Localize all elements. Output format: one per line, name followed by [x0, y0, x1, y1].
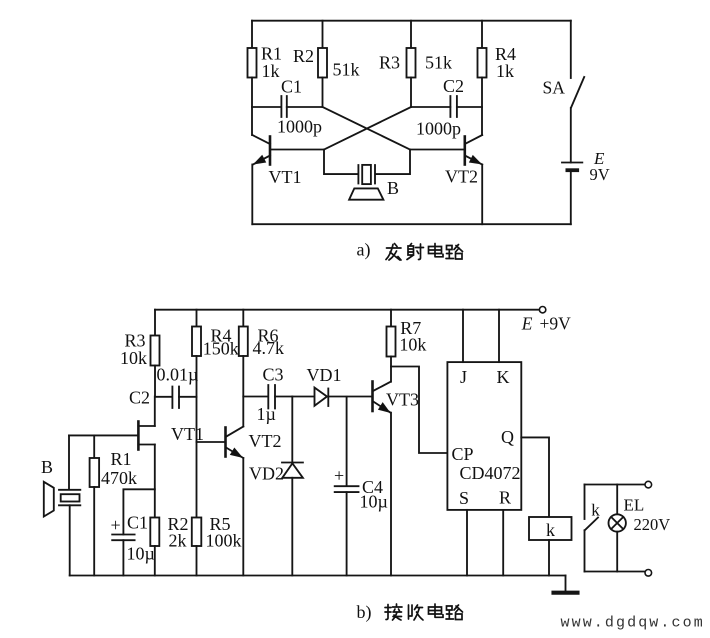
svg-text:1µ: 1µ: [257, 404, 276, 424]
terminal: lamp bottom: [645, 570, 652, 577]
svg-text:VD1: VD1: [307, 365, 342, 385]
svg-text:R: R: [499, 488, 511, 508]
wire: relay to ground rail: [548, 540, 550, 576]
svg-text:R1: R1: [111, 449, 132, 469]
capacitor C4 (10u electrolytic): [335, 486, 359, 575]
svg-text:10k: 10k: [399, 335, 426, 355]
wire: R5 bottom to ground rail: [196, 546, 198, 576]
capacitor C1 (10u electrolytic): [112, 535, 134, 576]
wire: left rail from top rail to R1: [251, 21, 253, 48]
caption a: "a) 发射电路": [357, 239, 463, 260]
microphone B column: [68, 435, 70, 489]
svg-text:VD2: VD2: [249, 464, 284, 484]
svg-text:C1: C1: [281, 76, 302, 96]
wire: R pin to ground rail: [502, 510, 504, 576]
resistor R4 (150k): [192, 327, 201, 357]
capacitor C1: [281, 96, 286, 117]
wire: VT1 emitter column down through R2: [154, 445, 156, 518]
lamp EL: [609, 485, 626, 572]
svg-text:2k: 2k: [169, 531, 187, 551]
IC CD4072 box: [447, 362, 521, 510]
svg-text:K: K: [497, 367, 510, 387]
char 电: [429, 244, 444, 257]
wire: VT2 emitter to bottom rail: [481, 165, 483, 225]
wire: top rail to R4: [481, 21, 483, 48]
wire: R3 junction to C2 left plate: [411, 106, 450, 108]
microphone B piezo element: [59, 490, 80, 506]
lamp circuit: top wire: [585, 484, 646, 486]
svg-text:k: k: [546, 520, 555, 540]
ground symbol: [554, 576, 578, 593]
diode VD2: [282, 463, 303, 478]
wire: top rail of circuit a: [252, 20, 571, 22]
resistor R2: [318, 48, 327, 78]
svg-text:www.dgdqw.com: www.dgdqw.com: [561, 615, 705, 632]
char 路: [446, 605, 463, 620]
wire: rail to R7: [390, 310, 392, 327]
svg-text:220V: 220V: [634, 515, 671, 534]
resistor R2 (2k): [150, 518, 159, 547]
wire: VT2 base wire: [197, 441, 226, 443]
svg-text:Q: Q: [501, 427, 514, 447]
wire: R5 top from VT2 base column: [196, 442, 198, 518]
resistor R6 (4.7k): [239, 327, 248, 357]
wire: VT1 emitter to bottom rail: [251, 165, 253, 225]
svg-text:C1: C1: [127, 513, 148, 533]
wire: R7 bottom to VT3 collector: [390, 357, 392, 382]
svg-text:k: k: [591, 501, 600, 520]
wire: S pin to ground rail: [466, 510, 468, 576]
wire: R4 bottom to VT2 collector: [481, 78, 483, 136]
resistor R7 (10k): [387, 327, 396, 357]
wire: base wire junction to R1: [93, 435, 95, 458]
transistor VT1 (receiver): [138, 422, 154, 450]
svg-text:a): a): [357, 239, 371, 260]
char 射: [407, 244, 424, 260]
svg-text:S: S: [459, 488, 469, 508]
wire: J pin to rail: [462, 310, 464, 362]
microphone B horn: [44, 482, 54, 517]
terminal: lamp top: [645, 481, 652, 488]
svg-text:VT2: VT2: [445, 167, 478, 187]
wire: K pin to rail: [498, 310, 500, 362]
svg-text:1000p: 1000p: [277, 117, 322, 137]
char 路: [446, 245, 463, 260]
wire: VT1 base to cross junction: [270, 149, 324, 151]
transistor VT2: [465, 135, 482, 165]
svg-text:+: +: [111, 515, 121, 535]
wire: top rail of circuit b: [155, 309, 539, 311]
wire: R1 bottom to ground rail: [93, 487, 95, 576]
wire: buzzer loop left: [324, 150, 358, 175]
wire: R3 bottom to junction: [410, 78, 412, 108]
wire: R7/VT3 collector junction to CP pin: [391, 367, 447, 454]
wire: VD2 branch down: [291, 397, 293, 463]
battery E: [562, 163, 582, 225]
resistor R1 (470k): [90, 458, 100, 487]
svg-text:b): b): [357, 602, 372, 623]
wire: junction to VD1 anode: [292, 396, 314, 398]
wire: rail to R4: [196, 310, 198, 327]
char 接: [385, 604, 402, 620]
wire: top rail to R3: [410, 21, 412, 48]
wire: C4 branch down: [346, 397, 348, 486]
svg-text:C3: C3: [263, 365, 284, 385]
char 电: [429, 604, 444, 617]
svg-text:SA: SA: [543, 78, 566, 98]
wire: C2 right plate to R4 column: [457, 106, 482, 108]
wire: emitter junction to C1: [123, 489, 154, 534]
lamp circuit: bottom wire: [585, 571, 646, 573]
wire: bottom rail of circuit a: [252, 223, 571, 225]
svg-text:E: E: [521, 313, 533, 333]
wire: VD1 cathode to C4 junction to VT3 base: [328, 396, 372, 398]
svg-text:+9V: +9V: [540, 313, 572, 333]
terminal: +9V supply: [539, 307, 545, 313]
wire: cross diagonal from R3/C2 junction to VT1 base: [324, 107, 411, 150]
wire: VT1 base wire from B: [69, 434, 138, 436]
speaker horn of B: [349, 188, 383, 199]
wire: R1 bottom to VT1 collector: [251, 78, 253, 136]
svg-text:470k: 470k: [101, 468, 137, 488]
transistor VT1: [252, 135, 270, 165]
wire: VT1 collector column to C1 left plate: [252, 106, 281, 108]
svg-text:10k: 10k: [120, 348, 147, 368]
resistor R5 (100k): [192, 518, 202, 547]
svg-text:J: J: [460, 367, 467, 387]
svg-text:+: +: [334, 466, 344, 486]
wire: R6 bottom to C3 junction to VT2 collector: [242, 356, 244, 427]
svg-text:VT1: VT1: [269, 167, 302, 187]
wire: VT3 emitter to ground rail: [390, 413, 392, 576]
svg-text:1k: 1k: [262, 61, 280, 81]
svg-text:100k: 100k: [206, 531, 242, 551]
wire: ground rail (bottom of circuit b): [70, 575, 566, 577]
svg-text:C2: C2: [129, 387, 150, 407]
wire: cross diagonal from R2/C1 junction to VT2 base: [323, 107, 411, 150]
svg-text:B: B: [387, 178, 399, 198]
svg-text:R2: R2: [293, 46, 314, 66]
caption b: "b) 接收电路": [357, 602, 463, 623]
svg-text:0.01µ: 0.01µ: [157, 364, 199, 384]
wire: top rail to R2: [322, 21, 324, 48]
svg-text:VT2: VT2: [249, 431, 282, 451]
svg-text:1000p: 1000p: [416, 118, 461, 138]
svg-text:10µ: 10µ: [127, 544, 155, 564]
switch k: [585, 485, 599, 572]
char 发: [386, 244, 401, 261]
diode VD1: [315, 388, 329, 406]
wire: R2 bottom to junction: [322, 78, 324, 108]
switch SA: [570, 21, 572, 78]
svg-text:CP: CP: [452, 444, 474, 464]
svg-text:4.7k: 4.7k: [253, 338, 285, 358]
relay k box: [529, 517, 572, 540]
wire: R4 bottom to VT2 base junction: [196, 356, 198, 442]
transistor VT2 (receiver): [226, 427, 244, 459]
svg-text:150k: 150k: [203, 338, 239, 358]
svg-text:VT1: VT1: [171, 424, 204, 444]
svg-text:10µ: 10µ: [360, 492, 388, 512]
wire: rail to R6: [242, 310, 244, 327]
buzzer B (piezo element): [358, 165, 375, 184]
svg-text:C2: C2: [443, 76, 464, 96]
char 收: [409, 605, 424, 620]
svg-text:EL: EL: [624, 496, 645, 515]
svg-text:B: B: [41, 457, 53, 477]
resistor R3: [407, 48, 416, 78]
wire: R2 bottom to ground rail: [154, 546, 156, 576]
svg-text:51k: 51k: [333, 60, 360, 80]
wire: B bottom to ground rail: [69, 505, 71, 575]
wire: rail to R3: [154, 310, 156, 336]
wire: R3 bottom to C2 junction to VT1 collector: [154, 366, 156, 427]
svg-text:51k: 51k: [425, 53, 452, 73]
svg-text:CD4072: CD4072: [460, 463, 521, 483]
wire: C1 right plate to R2 bottom junction: [287, 106, 323, 108]
wire: VD2 anode to ground rail: [291, 478, 293, 576]
resistor R3 (10k): [151, 336, 160, 366]
capacitor C3 (1u): [243, 385, 292, 409]
svg-text:9V: 9V: [590, 165, 610, 184]
resistor R1: [248, 48, 257, 78]
capacitor C2: [450, 96, 457, 117]
transistor VT3: [373, 382, 391, 413]
svg-text:VT3: VT3: [386, 390, 419, 410]
wire: VT2 base to cross junction: [410, 149, 465, 151]
resistor R4: [478, 48, 487, 78]
svg-text:1k: 1k: [496, 61, 514, 81]
svg-text:R3: R3: [379, 53, 400, 73]
wire: buzzer loop right: [376, 150, 410, 175]
wire: Q pin to relay: [521, 437, 549, 517]
wire: VT2 emitter to ground rail: [242, 458, 244, 576]
capacitor C2 (0.01u): [155, 387, 197, 409]
